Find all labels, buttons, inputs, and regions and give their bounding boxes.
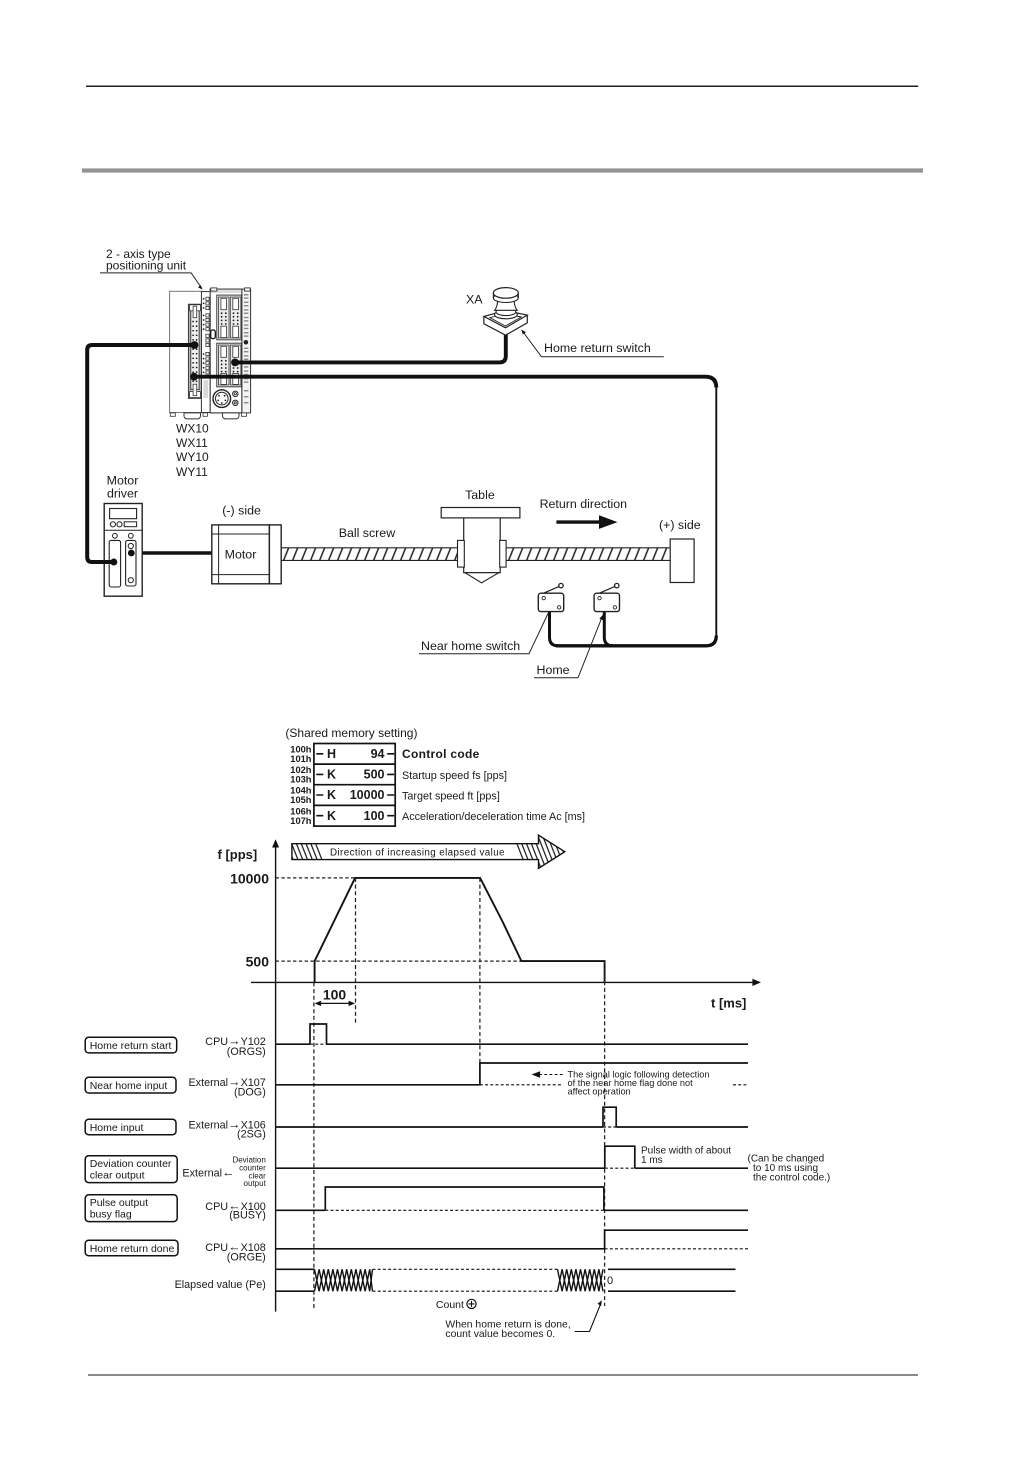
svg-text:Near home switch: Near home switch bbox=[421, 639, 520, 653]
svg-text:Table: Table bbox=[465, 488, 495, 502]
shared memory table bbox=[314, 744, 395, 827]
svg-text:Acceleration/deceleration time: Acceleration/deceleration time Ac [ms] bbox=[402, 811, 585, 823]
bottom annotation bbox=[445, 1319, 570, 1340]
svg-text:10000: 10000 bbox=[230, 870, 269, 886]
PLC 2-axis positioning unit bbox=[170, 288, 251, 413]
svg-text:1 ms: 1 ms bbox=[641, 1155, 663, 1166]
main module bottom connector block bbox=[217, 343, 242, 387]
svg-text:driver: driver bbox=[107, 487, 138, 501]
f axis bbox=[275, 846, 277, 1312]
svg-text:t [ms]: t [ms] bbox=[711, 996, 746, 1011]
svg-text:Ball screw: Ball screw bbox=[339, 526, 396, 540]
svg-text:XA: XA bbox=[466, 293, 483, 307]
dashed vertical t1 bbox=[313, 982, 315, 1309]
row 1 label box bbox=[85, 1037, 177, 1053]
bottom rule line bbox=[88, 1374, 918, 1376]
svg-text:Pulse output: Pulse output bbox=[90, 1197, 148, 1209]
middle LED strip module bbox=[201, 292, 210, 413]
row 2 label box bbox=[85, 1077, 176, 1093]
svg-text:101h: 101h bbox=[290, 754, 312, 764]
svg-text:103h: 103h bbox=[290, 775, 312, 785]
speed profile trapezoid bbox=[315, 878, 605, 983]
(+) end stopper block bbox=[670, 539, 694, 583]
svg-text:(DOG): (DOG) bbox=[234, 1086, 266, 1098]
svg-text:busy flag: busy flag bbox=[90, 1209, 132, 1221]
svg-text:(ORGS): (ORGS) bbox=[227, 1046, 266, 1058]
svg-text:positioning unit: positioning unit bbox=[106, 259, 187, 273]
cap bbox=[493, 293, 518, 302]
svg-text:K: K bbox=[327, 768, 336, 782]
bottom round programming connector bbox=[213, 390, 238, 408]
dashed vertical t2 bbox=[355, 878, 357, 1024]
svg-text:100: 100 bbox=[364, 809, 385, 823]
svg-text:Home return switch: Home return switch bbox=[544, 341, 651, 355]
svg-text:(Shared memory setting): (Shared memory setting) bbox=[285, 726, 417, 740]
svg-text:Count: Count bbox=[436, 1299, 464, 1311]
svg-text:clear output: clear output bbox=[90, 1170, 145, 1182]
svg-text:(-) side: (-) side bbox=[222, 504, 261, 518]
Table assembly bbox=[441, 508, 520, 583]
svg-text:WX11: WX11 bbox=[176, 436, 208, 450]
wire: driver to motor bbox=[132, 551, 213, 555]
top rule line bbox=[86, 85, 918, 87]
base 3D box bbox=[484, 315, 527, 335]
Motor bbox=[212, 525, 281, 584]
direction of increasing elapsed value big arrow bbox=[286, 831, 581, 872]
svg-text:WY11: WY11 bbox=[176, 465, 208, 479]
svg-text:Home input: Home input bbox=[90, 1122, 144, 1134]
svg-text:94: 94 bbox=[371, 747, 385, 761]
svg-text:102h: 102h bbox=[290, 765, 312, 775]
svg-text:Near home input: Near home input bbox=[90, 1080, 168, 1092]
svg-text:500: 500 bbox=[246, 954, 270, 970]
Near home micro switch bbox=[538, 583, 563, 611]
latch between connector blocks bbox=[211, 330, 216, 339]
svg-text:H: H bbox=[327, 747, 336, 761]
svg-text:500: 500 bbox=[364, 768, 385, 782]
svg-text:Home return done: Home return done bbox=[90, 1243, 175, 1255]
right strip markings bbox=[244, 294, 249, 403]
svg-text:Home return start: Home return start bbox=[90, 1040, 172, 1052]
t axis bbox=[251, 981, 753, 983]
middle strip tiny LED markings bbox=[203, 297, 209, 398]
row 2: near home input DOG bbox=[276, 1063, 748, 1085]
wire A terminal inside driver bbox=[103, 560, 113, 564]
svg-text:100: 100 bbox=[323, 987, 347, 1003]
main module body bbox=[210, 289, 242, 413]
row 4 pulse width note bbox=[641, 1145, 731, 1166]
svg-text:Elapsed value (Pe): Elapsed value (Pe) bbox=[175, 1279, 266, 1291]
row 2 note text bbox=[568, 1070, 710, 1097]
svg-text:Motor: Motor bbox=[225, 548, 257, 562]
svg-text:104h: 104h bbox=[290, 786, 312, 796]
table addresses bbox=[290, 745, 312, 826]
wire: PLC to motor driver bbox=[87, 345, 195, 562]
wire: near home switch drop bbox=[550, 612, 559, 646]
Ball screw bbox=[281, 548, 670, 561]
row 3 label box bbox=[85, 1119, 176, 1134]
left MIL connector module bbox=[189, 304, 202, 398]
Home micro switch bbox=[594, 583, 619, 611]
wire B terminal inside driver bbox=[128, 550, 135, 557]
row 3: home input 2SG bbox=[276, 1107, 748, 1127]
svg-text:WY10: WY10 bbox=[176, 450, 209, 464]
row 1: home return start signal ORGS bbox=[276, 1024, 748, 1044]
svg-text:External←: External← bbox=[182, 1166, 234, 1180]
svg-text:105h: 105h bbox=[290, 795, 312, 805]
dashed vertical t4 bbox=[604, 961, 606, 1306]
row 7: elapsed value Pe rails bbox=[276, 1269, 736, 1291]
label: 2-axis type positioning unit bbox=[106, 247, 187, 273]
dashed vertical t3 bbox=[479, 878, 481, 1085]
svg-text:(BUSY): (BUSY) bbox=[229, 1210, 266, 1222]
Motor driver label bbox=[107, 474, 139, 501]
dashed level lines bbox=[276, 877, 356, 879]
svg-text:output: output bbox=[244, 1179, 267, 1188]
XA push button switch bbox=[484, 288, 527, 336]
PLC mounting feet bbox=[170, 413, 246, 419]
WX/WY address list bbox=[176, 421, 209, 479]
svg-text:Startup speed fs [pps]: Startup speed fs [pps] bbox=[402, 770, 507, 782]
svg-text:K: K bbox=[327, 788, 336, 802]
wire: home return switch to PLC bbox=[235, 334, 506, 362]
Motor driver bbox=[104, 504, 142, 597]
wire: home switch drop bbox=[604, 612, 613, 646]
row 4: deviation counter clear output bbox=[276, 1146, 748, 1168]
backplate bbox=[170, 291, 202, 412]
leader for positioning unit label bbox=[100, 273, 202, 288]
svg-text:Direction of increasing elapse: Direction of increasing elapsed value bbox=[330, 847, 505, 858]
row 7 zigzag uncertain bands bbox=[315, 1269, 604, 1291]
svg-text:0: 0 bbox=[607, 1275, 613, 1287]
svg-text:10000: 10000 bbox=[350, 788, 385, 802]
svg-text:(ORGE): (ORGE) bbox=[227, 1251, 266, 1263]
svg-text:K: K bbox=[327, 809, 336, 823]
row 5 label box bbox=[85, 1195, 177, 1222]
svg-text:(+) side: (+) side bbox=[659, 518, 701, 532]
main module top connector block bbox=[217, 295, 242, 340]
svg-text:the control code.): the control code.) bbox=[753, 1172, 830, 1183]
row 6 label box bbox=[85, 1240, 178, 1256]
right strip module bbox=[242, 289, 251, 413]
row 5: pulse output busy flag BUSY bbox=[276, 1187, 748, 1210]
svg-text:(2SG): (2SG) bbox=[237, 1128, 266, 1140]
row 6: home return done ORGE bbox=[276, 1230, 748, 1249]
section heading gray bar bbox=[82, 168, 923, 172]
svg-text:Target speed ft [pps]: Target speed ft [pps] bbox=[402, 790, 500, 802]
svg-text:affect operation: affect operation bbox=[568, 1087, 631, 1097]
svg-text:Motor: Motor bbox=[107, 474, 139, 488]
row 4 label box bbox=[85, 1156, 177, 1183]
svg-text:Return direction: Return direction bbox=[540, 497, 628, 511]
table values bbox=[327, 747, 385, 823]
svg-text:Home: Home bbox=[537, 663, 570, 677]
tapered neck bbox=[495, 302, 518, 311]
wire: PLC big loop to limit switches bbox=[194, 377, 716, 388]
svg-text:107h: 107h bbox=[290, 816, 312, 826]
svg-text:count value becomes 0.: count value becomes 0. bbox=[445, 1329, 555, 1340]
top mounting tabs bbox=[211, 288, 217, 291]
svg-text:Deviation counter: Deviation counter bbox=[90, 1158, 172, 1170]
svg-text:100h: 100h bbox=[290, 745, 312, 755]
svg-text:WX10: WX10 bbox=[176, 421, 209, 435]
row 2 note arrow bbox=[539, 1074, 563, 1076]
collar rings bbox=[495, 310, 518, 318]
svg-text:f [pps]: f [pps] bbox=[218, 847, 258, 862]
svg-text:106h: 106h bbox=[290, 806, 312, 816]
svg-text:Control code: Control code bbox=[402, 747, 480, 761]
